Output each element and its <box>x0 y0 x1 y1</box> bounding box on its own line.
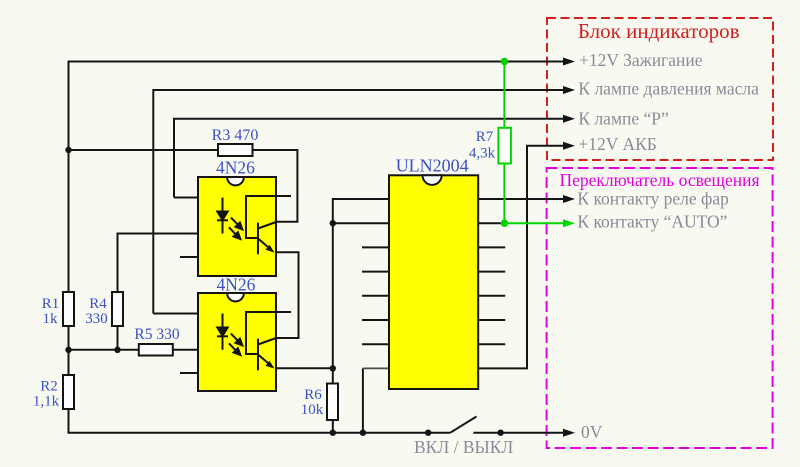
IC U3 ULN2004 body <box>389 175 478 389</box>
wire to headlight relay contact (pin 16) <box>478 198 563 200</box>
svg-text:0V: 0V <box>581 422 603 442</box>
wire R4 bottom lead <box>117 326 119 350</box>
opto U1 phototransistor <box>246 196 291 254</box>
svg-text:R4: R4 <box>89 296 107 312</box>
wire R6 top lead <box>332 368 334 383</box>
svg-text:R1: R1 <box>42 296 60 312</box>
wire ULN pin 2 <box>333 222 389 224</box>
opto U2 light arrows <box>229 334 243 356</box>
resistor R5 <box>139 344 173 356</box>
arrow AUTO green <box>563 219 575 227</box>
wire R3 to opto U1 collector <box>253 150 298 222</box>
wire opto U1 anode entry <box>174 197 223 199</box>
node switch left <box>425 430 431 436</box>
resistor R6 <box>327 384 338 421</box>
svg-text:1k: 1k <box>43 311 59 327</box>
svg-text:4N26: 4N26 <box>217 275 256 295</box>
svg-text:К лампе давления масла: К лампе давления масла <box>578 79 759 99</box>
svg-text:К контакту “AUTO”: К контакту “AUTO” <box>577 212 727 232</box>
wire to oil lamp <box>153 90 563 314</box>
svg-text:R7: R7 <box>476 129 494 145</box>
wire R2 lead bottom and 0V rail <box>69 409 451 433</box>
svg-text:R2: R2 <box>40 379 58 395</box>
node 0V riser junction <box>360 430 366 436</box>
arrow oil lamp <box>563 86 575 94</box>
svg-text:330: 330 <box>85 311 108 327</box>
indicator block dashed box <box>547 18 773 160</box>
wire R5 to opto U2 cathode <box>173 349 223 351</box>
wire to lamp P <box>174 119 563 198</box>
opto U2 phototransistor <box>246 312 291 370</box>
arrow +12V ignition <box>563 58 575 66</box>
opto U2 LED <box>217 314 228 350</box>
opto U2 NC stub <box>180 372 198 374</box>
optocoupler U2 4N26 body <box>198 293 276 391</box>
node ULN pin2 junction <box>330 220 336 226</box>
wire R1 lead top <box>68 150 70 292</box>
svg-text:R6: R6 <box>304 387 322 403</box>
svg-text:R5 330: R5 330 <box>134 326 179 343</box>
switch lever <box>450 417 476 433</box>
svg-text:10k: 10k <box>301 402 324 418</box>
wire opto U2 anode entry <box>153 313 222 315</box>
wire bottom node rail R1 R4 R5 <box>69 349 139 351</box>
wire R6 bottom lead <box>332 420 334 433</box>
svg-text:ВКЛ / ВЫКЛ: ВКЛ / ВЫКЛ <box>414 437 513 457</box>
wire ULN pin 8 to 0V riser <box>362 368 364 432</box>
node A junction <box>65 147 71 153</box>
svg-text:Блок индикаторов: Блок индикаторов <box>578 19 740 43</box>
svg-text:4,3k: 4,3k <box>469 146 496 162</box>
optocoupler U1 4N26 body <box>198 177 276 276</box>
svg-text:4N26: 4N26 <box>216 158 255 178</box>
resistor R4 <box>112 292 123 326</box>
wire node A to R3 <box>69 149 219 151</box>
wire 0V after switch <box>473 432 563 434</box>
resistor R7 green wiring <box>504 62 563 224</box>
opto U1 light arrows <box>229 218 243 240</box>
wire +12V ignition top rail <box>69 62 564 293</box>
wire pin 15 to AUTO node <box>478 222 504 224</box>
svg-text:ULN2004: ULN2004 <box>396 156 469 176</box>
svg-text:Переключатель освещения: Переключатель освещения <box>559 170 759 190</box>
arrow relay contact <box>563 195 575 203</box>
node switch right <box>497 430 503 436</box>
node B junction <box>330 365 336 371</box>
arrow +12V AKB <box>563 142 575 150</box>
resistor R1 <box>63 292 74 326</box>
wire +12V AKB riser from pin 9 <box>478 146 563 369</box>
node rail junction R4 <box>114 347 120 353</box>
wire node B vertical to ULN pins 1 2 <box>333 199 389 368</box>
ULN left pin stubs 3-7 <box>362 247 389 344</box>
opto U1 LED <box>217 198 228 234</box>
node green AUTO <box>501 219 509 227</box>
opto U1 NC stub <box>180 256 198 258</box>
svg-text:1,1k: 1,1k <box>33 394 60 410</box>
svg-text:К лампе “Р”: К лампе “Р” <box>578 109 668 129</box>
wire opto U1 cathode to R4 <box>118 234 223 293</box>
arrow 0V <box>563 429 575 437</box>
light switch dashed box <box>547 168 773 448</box>
wire opto U1 emitter to opto U2 collector <box>276 252 299 338</box>
resistor R2 <box>63 375 74 409</box>
wire R1 lead bottom <box>68 326 70 375</box>
svg-text:+12V АКБ: +12V АКБ <box>578 134 656 154</box>
svg-text:R3 470: R3 470 <box>212 127 259 144</box>
opto U1 emitter arrowhead <box>266 245 275 253</box>
resistor R7 <box>498 128 511 164</box>
arrow lamp P <box>563 115 575 123</box>
resistor R3 <box>218 144 253 156</box>
node R6 bottom junction <box>330 430 336 436</box>
opto U2 emitter arrowhead <box>266 361 275 369</box>
node rail junction R1 <box>65 347 71 353</box>
svg-text:К контакту реле фар: К контакту реле фар <box>577 189 729 209</box>
svg-text:+12V Зажигание: +12V Зажигание <box>579 50 703 70</box>
ULN right pin stubs 10-14 <box>478 247 505 344</box>
node green top <box>501 58 509 66</box>
wire ULN pin 8 horizontal <box>363 367 389 369</box>
wire opto U2 emitter to node B <box>276 367 333 369</box>
